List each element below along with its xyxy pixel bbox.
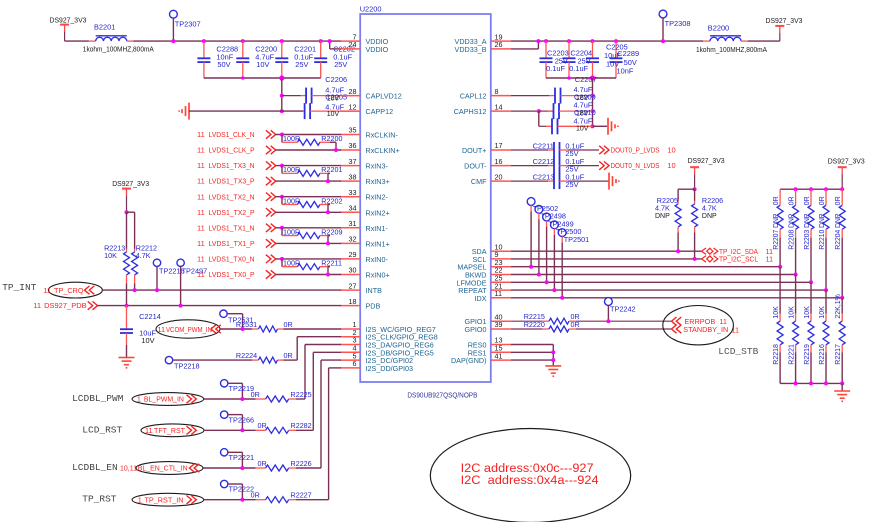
net label 11 LVDS1_TX1_P bbox=[197, 239, 255, 248]
junction bbox=[824, 187, 828, 191]
svg-text:0R: 0R bbox=[251, 491, 260, 500]
resistor R2210 0R DNP pullup bbox=[823, 189, 829, 290]
svg-text:0R: 0R bbox=[258, 459, 267, 468]
svg-text:R2218: R2218 bbox=[773, 344, 780, 365]
net label 11 LVDS1_TX0_N bbox=[197, 255, 255, 264]
svg-text:CAPHS12: CAPHS12 bbox=[454, 107, 487, 116]
svg-text:25V: 25V bbox=[295, 60, 308, 69]
svg-text:33: 33 bbox=[349, 188, 357, 197]
junction bbox=[794, 273, 798, 277]
power DS927_3V3 (I2C pullups) bbox=[690, 167, 699, 189]
junction bbox=[328, 39, 332, 43]
port oval TFT_RST bbox=[141, 424, 204, 437]
junction bbox=[125, 210, 129, 214]
resistor R2203 0R DNP pullup bbox=[808, 189, 814, 282]
svg-text:10V: 10V bbox=[576, 126, 589, 133]
pin 7 VDDIO bbox=[340, 32, 388, 46]
port chevron LVDS1_CLK_P bbox=[266, 146, 276, 154]
svg-text:DS90UB927QSQ/NOPB: DS90UB927QSQ/NOPB bbox=[407, 390, 477, 399]
svg-text:LVDS1_TX2_P: LVDS1_TX2_P bbox=[209, 208, 255, 217]
svg-text:DOUT+: DOUT+ bbox=[462, 146, 487, 155]
resistor R2215 0R bbox=[511, 318, 671, 324]
junction bbox=[824, 288, 828, 292]
test point TP2218 bbox=[165, 356, 172, 363]
svg-text:C2213: C2213 bbox=[533, 173, 555, 182]
svg-text:100R: 100R bbox=[283, 258, 300, 267]
junction bbox=[171, 39, 175, 43]
pin 25 LFMODE bbox=[457, 274, 511, 288]
svg-text:TP2308: TP2308 bbox=[665, 19, 691, 28]
test point TP2219 bbox=[221, 380, 245, 401]
svg-text:RxCLKIN+: RxCLKIN+ bbox=[366, 146, 400, 155]
pin 33 RxIN2- bbox=[340, 188, 388, 202]
svg-text:10K: 10K bbox=[804, 306, 811, 319]
junction bbox=[809, 187, 813, 191]
pin 22 BKWD bbox=[465, 266, 511, 280]
wire bbox=[65, 40, 89, 42]
pin 11 IDX bbox=[475, 289, 511, 303]
net label 11 LVDS1_TX1_N bbox=[197, 223, 255, 232]
wire ground line bbox=[189, 110, 282, 112]
resistor R2208 0R DNP pullup bbox=[793, 189, 799, 274]
wire SDA net bbox=[511, 250, 702, 252]
wire SCL net bbox=[511, 258, 702, 260]
wire LFMODE net bbox=[511, 281, 811, 283]
svg-text:0R: 0R bbox=[773, 196, 780, 205]
pin 6 I2S_DD/GPI03 bbox=[340, 359, 413, 373]
resistor R2212 4.7K pullup bbox=[127, 212, 138, 292]
svg-text:0.1uF: 0.1uF bbox=[546, 64, 565, 73]
wire bbox=[134, 40, 342, 42]
resistor R2227 0R bbox=[256, 368, 341, 503]
svg-text:DS927_3V3: DS927_3V3 bbox=[50, 15, 87, 24]
svg-text:0R: 0R bbox=[804, 196, 811, 205]
svg-text:4.7K: 4.7K bbox=[702, 204, 717, 213]
svg-text:4.7uF: 4.7uF bbox=[574, 116, 593, 125]
pin 29 RxIN0- bbox=[340, 250, 388, 264]
wire REPEAT net bbox=[511, 289, 826, 291]
svg-text:LVDS1_TX3_P: LVDS1_TX3_P bbox=[209, 177, 255, 186]
net label 11 LVDS1_CLK_N bbox=[197, 130, 255, 139]
capacitor C2213 (CMF) bbox=[511, 173, 609, 189]
svg-text:10K: 10K bbox=[789, 306, 796, 319]
svg-text:R2200: R2200 bbox=[321, 134, 342, 143]
svg-text:11: 11 bbox=[43, 286, 51, 295]
svg-text:100R: 100R bbox=[283, 134, 300, 143]
svg-text:B2200: B2200 bbox=[708, 24, 729, 33]
svg-text:BL_PWM_IN: BL_PWM_IN bbox=[144, 395, 184, 404]
junction bbox=[591, 124, 595, 128]
resistor R2221 pulldown bbox=[793, 275, 799, 384]
capacitor C2202 bbox=[314, 39, 327, 78]
junction bbox=[824, 381, 828, 385]
svg-text:0R: 0R bbox=[819, 196, 826, 205]
svg-text:PDB: PDB bbox=[366, 302, 381, 311]
wire bbox=[276, 180, 341, 182]
svg-text:STANDBY_IN: STANDBY_IN bbox=[683, 325, 728, 334]
port chevron LVDS1_TX2_P bbox=[266, 208, 276, 216]
pin 32 RxIN1+ bbox=[340, 235, 389, 249]
junction bbox=[840, 381, 844, 385]
test point TP2502 bbox=[527, 198, 535, 269]
svg-text:R2227: R2227 bbox=[291, 491, 312, 500]
net label 11 LVDS1_TX3_P bbox=[197, 177, 255, 186]
svg-text:LVDS1_TX2_N: LVDS1_TX2_N bbox=[209, 192, 255, 201]
pin 18 PDB bbox=[340, 297, 380, 311]
resistor R2282 0R bbox=[256, 352, 341, 433]
svg-text:10V: 10V bbox=[327, 95, 340, 102]
svg-text:25V: 25V bbox=[334, 60, 347, 69]
svg-text:1kohm_100MHZ,800mA: 1kohm_100MHZ,800mA bbox=[696, 47, 767, 54]
svg-text:LVDS1_TX0_N: LVDS1_TX0_N bbox=[209, 255, 255, 264]
capacitor C2289 bbox=[610, 39, 623, 78]
test point TP2266 bbox=[221, 411, 245, 432]
svg-text:R2201: R2201 bbox=[321, 165, 342, 174]
pin 40 GPIO1 bbox=[465, 312, 511, 326]
port chevron LVDS1_TX1_P bbox=[266, 239, 276, 247]
svg-text:32: 32 bbox=[349, 235, 357, 244]
svg-text:20: 20 bbox=[495, 172, 503, 181]
inductor B2201 bbox=[89, 36, 134, 41]
svg-text:11: 11 bbox=[158, 325, 166, 334]
svg-text:RxIN1-: RxIN1- bbox=[366, 224, 389, 233]
op-amp U2200 DS90UB927QSQ/NOPB serializer IC body bbox=[360, 14, 491, 382]
resistor R2213 10K pullup bbox=[124, 212, 130, 307]
svg-text:0R: 0R bbox=[789, 196, 796, 205]
port chevron DOUT0_P_LVDS bbox=[599, 146, 609, 154]
ground (CMF) bbox=[609, 173, 619, 190]
junction bbox=[280, 94, 284, 98]
wire pullup rail bbox=[780, 188, 842, 190]
pin 20 CMF bbox=[471, 172, 511, 186]
svg-text:11: 11 bbox=[197, 161, 205, 170]
svg-text:U2200: U2200 bbox=[360, 5, 382, 14]
svg-text:29: 29 bbox=[349, 250, 357, 259]
capacitor C2209 (CAPHS12) bbox=[511, 103, 593, 119]
wire PDB net bbox=[97, 305, 341, 307]
junction bbox=[536, 39, 540, 43]
svg-text:C2214: C2214 bbox=[139, 312, 161, 321]
svg-text:26: 26 bbox=[495, 40, 503, 49]
junction bbox=[794, 381, 798, 385]
port symbol TP_I2C_SCL bbox=[702, 255, 774, 264]
svg-text:R2226: R2226 bbox=[291, 459, 312, 468]
pin 1 I2S_WC/GPIO_REG7 bbox=[340, 320, 436, 334]
wire bbox=[276, 242, 341, 244]
capacitor C2205 (lower) bbox=[303, 103, 360, 119]
svg-text:INTB: INTB bbox=[366, 286, 383, 295]
svg-text:TP_I2C_SCL: TP_I2C_SCL bbox=[719, 255, 758, 264]
resistor R2219 pulldown bbox=[808, 282, 814, 383]
ground (C2214) bbox=[119, 358, 135, 368]
svg-text:R2217: R2217 bbox=[835, 344, 842, 365]
svg-text:R2221: R2221 bbox=[789, 344, 796, 365]
svg-text:CAPP12: CAPP12 bbox=[366, 107, 394, 116]
wire INTB net bbox=[102, 289, 341, 291]
svg-text:LVDS1_TX3_N: LVDS1_TX3_N bbox=[209, 161, 255, 170]
capacitor C2206 bbox=[282, 88, 360, 104]
svg-text:50V: 50V bbox=[217, 60, 230, 69]
svg-text:11: 11 bbox=[197, 177, 205, 186]
svg-text:18: 18 bbox=[349, 297, 357, 306]
svg-text:4.7K: 4.7K bbox=[655, 204, 670, 213]
power DS927_3V3 (top left) bbox=[60, 25, 69, 41]
svg-text:R2211: R2211 bbox=[321, 258, 342, 267]
svg-text:RxCLKIN-: RxCLKIN- bbox=[366, 131, 399, 140]
svg-text:37: 37 bbox=[349, 157, 357, 166]
wire cap bottom rail bbox=[204, 77, 321, 79]
svg-text:DS927_3V3: DS927_3V3 bbox=[766, 16, 803, 25]
svg-text:36: 36 bbox=[349, 141, 357, 150]
svg-text:10: 10 bbox=[667, 161, 675, 170]
capacitor C2211 bbox=[511, 142, 599, 158]
test point TP2221 bbox=[221, 449, 245, 470]
wire bbox=[276, 134, 341, 136]
wire bbox=[593, 125, 608, 127]
pin 30 RxIN0+ bbox=[340, 266, 389, 280]
svg-text:27: 27 bbox=[349, 281, 357, 290]
wire bbox=[276, 227, 341, 229]
svg-text:BL_EN_CTL_IN: BL_EN_CTL_IN bbox=[138, 464, 188, 473]
wire bbox=[276, 165, 341, 167]
svg-text:C2211: C2211 bbox=[533, 142, 554, 151]
svg-text:100R: 100R bbox=[283, 227, 300, 236]
pin 3 I2S_DA/GPIO_REG6 bbox=[340, 336, 434, 350]
svg-text:0R: 0R bbox=[251, 390, 260, 399]
svg-text:TP2266: TP2266 bbox=[229, 415, 255, 424]
svg-text:R2202: R2202 bbox=[321, 196, 342, 205]
svg-text:CAPL12: CAPL12 bbox=[460, 92, 487, 101]
svg-text:TP2497: TP2497 bbox=[182, 267, 208, 276]
pin 38 RxIN3+ bbox=[340, 172, 389, 186]
pin 12 CAPP12 bbox=[340, 102, 393, 116]
resistor R2220 0R bbox=[511, 326, 671, 332]
junction bbox=[591, 109, 595, 113]
svg-text:RxIN3+: RxIN3+ bbox=[366, 177, 390, 186]
svg-text:11: 11 bbox=[145, 426, 153, 435]
svg-text:11: 11 bbox=[197, 208, 205, 217]
wire bbox=[276, 196, 341, 198]
wire bbox=[204, 398, 256, 400]
test point TP2498 bbox=[535, 205, 543, 276]
pin 41 DAP(GND) bbox=[451, 351, 511, 365]
capacitor C2204 bbox=[563, 39, 576, 78]
svg-text:1: 1 bbox=[138, 495, 142, 504]
resistor R2217 pulldown bbox=[839, 298, 845, 384]
svg-text:6: 6 bbox=[353, 359, 357, 368]
svg-text:0R: 0R bbox=[571, 320, 580, 329]
svg-text:R2207 DNP: R2207 DNP bbox=[773, 213, 780, 249]
pin 13 RES0 bbox=[468, 336, 511, 350]
svg-text:11: 11 bbox=[766, 255, 774, 264]
pin 28 CAPLVD12 bbox=[340, 87, 402, 101]
port oval TP_RST_IN bbox=[132, 493, 204, 506]
junction bbox=[840, 296, 844, 300]
svg-text:TFT_RST: TFT_RST bbox=[154, 426, 186, 435]
wire bbox=[841, 383, 843, 391]
svg-text:DS927_3V3: DS927_3V3 bbox=[688, 156, 725, 165]
svg-text:DNP: DNP bbox=[655, 213, 670, 220]
resistor R2209 100R termination bbox=[280, 226, 330, 246]
pin 24 VDDIO bbox=[340, 40, 388, 54]
svg-text:16: 16 bbox=[495, 157, 503, 166]
svg-text:IDX: IDX bbox=[475, 294, 487, 303]
net label 11 LVDS1_TX0_P bbox=[197, 270, 255, 279]
junction bbox=[279, 75, 284, 80]
svg-text:C2207: C2207 bbox=[575, 75, 597, 84]
svg-text:4.7K: 4.7K bbox=[136, 251, 151, 260]
test point TP2497 bbox=[177, 259, 184, 308]
svg-text:DOUT-: DOUT- bbox=[464, 162, 487, 171]
svg-text:DS927_3V3: DS927_3V3 bbox=[828, 157, 865, 166]
pin 4 I2S_DB/GPIO_REG5 bbox=[340, 344, 434, 358]
svg-text:R2220: R2220 bbox=[524, 320, 545, 329]
wire bbox=[276, 211, 341, 213]
wire bbox=[281, 78, 283, 111]
svg-text:10K: 10K bbox=[773, 306, 780, 319]
svg-text:22K,1%: 22K,1% bbox=[835, 294, 842, 319]
svg-text:0R: 0R bbox=[835, 196, 842, 205]
junction bbox=[693, 187, 697, 191]
svg-text:C2212: C2212 bbox=[533, 157, 555, 166]
svg-text:14: 14 bbox=[495, 102, 503, 111]
svg-text:C2206: C2206 bbox=[325, 75, 347, 84]
svg-text:11: 11 bbox=[197, 146, 205, 155]
resistor R2205 4.7K DNP bbox=[675, 189, 695, 253]
svg-text:I2S_DD/GPI03: I2S_DD/GPI03 bbox=[366, 364, 414, 373]
pin 34 RxIN2+ bbox=[340, 204, 389, 218]
pin 9 SCL bbox=[473, 250, 511, 264]
svg-text:TP_RST: TP_RST bbox=[82, 494, 117, 505]
capacitor C2212 bbox=[511, 158, 599, 174]
svg-text:11: 11 bbox=[197, 223, 205, 232]
svg-text:R2224: R2224 bbox=[236, 351, 257, 360]
svg-text:DOUT0_N_LVDS: DOUT0_N_LVDS bbox=[611, 161, 660, 170]
pin 35 RxCLKIN- bbox=[340, 126, 398, 140]
svg-text:TP_CRQ: TP_CRQ bbox=[54, 286, 84, 295]
wire bbox=[204, 429, 256, 431]
svg-text:DS927_PDB: DS927_PDB bbox=[44, 301, 87, 310]
resistor R2225 0R bbox=[256, 345, 341, 403]
svg-text:RxIN0+: RxIN0+ bbox=[366, 271, 390, 280]
svg-text:11: 11 bbox=[197, 239, 205, 248]
svg-text:R2531: R2531 bbox=[236, 320, 257, 329]
pin 31 RxIN1- bbox=[340, 219, 388, 233]
ground (DAP) bbox=[545, 366, 561, 376]
net label 11 LVDS1_CLK_P bbox=[197, 146, 255, 155]
svg-text:30: 30 bbox=[349, 266, 357, 275]
wire pin26 riser bbox=[511, 41, 539, 49]
svg-text:11: 11 bbox=[732, 325, 740, 334]
svg-text:VDDIO: VDDIO bbox=[366, 45, 389, 54]
svg-text:1kohm_100MHZ,800mA: 1kohm_100MHZ,800mA bbox=[83, 47, 154, 54]
svg-text:28: 28 bbox=[349, 87, 357, 96]
svg-text:R2225: R2225 bbox=[291, 390, 312, 399]
note oval I2C addresses bbox=[430, 429, 630, 522]
test point TP2500 bbox=[551, 221, 559, 292]
svg-text:TP_RST_IN: TP_RST_IN bbox=[145, 495, 184, 504]
svg-text:LVDS1_TX1_P: LVDS1_TX1_P bbox=[209, 239, 255, 248]
svg-text:10: 10 bbox=[667, 146, 675, 155]
wire bbox=[276, 149, 341, 151]
svg-text:LCDBL_EN: LCDBL_EN bbox=[72, 462, 118, 473]
svg-text:TP2307: TP2307 bbox=[175, 20, 201, 29]
ground (caps right) bbox=[608, 118, 618, 135]
port chevron DOUT0_N_LVDS bbox=[599, 161, 609, 169]
svg-text:24: 24 bbox=[349, 40, 357, 49]
svg-text:39: 39 bbox=[495, 320, 503, 329]
svg-text:10V: 10V bbox=[141, 336, 154, 345]
test point TP2501 bbox=[558, 229, 566, 300]
power DS927_3V3 (R2213/R2212) bbox=[122, 189, 131, 213]
junction bbox=[840, 187, 844, 191]
svg-text:LVDS1_CLK_N: LVDS1_CLK_N bbox=[209, 130, 255, 139]
svg-text:10nF: 10nF bbox=[617, 67, 634, 76]
svg-text:R2203 DNP: R2203 DNP bbox=[804, 213, 811, 249]
svg-text:R2216: R2216 bbox=[819, 344, 826, 365]
svg-text:10K: 10K bbox=[104, 251, 117, 260]
svg-text:DNP: DNP bbox=[702, 213, 717, 220]
svg-text:25V: 25V bbox=[565, 180, 578, 189]
svg-text:LCD_STB: LCD_STB bbox=[718, 346, 758, 357]
wire pin24 riser bbox=[330, 41, 341, 49]
svg-text:35: 35 bbox=[349, 126, 357, 135]
port chevron DS927_PDB bbox=[88, 301, 98, 309]
svg-text:RxIN0-: RxIN0- bbox=[366, 255, 389, 264]
svg-text:11: 11 bbox=[197, 130, 205, 139]
junction bbox=[280, 109, 284, 113]
resistor R2226 0R bbox=[256, 360, 341, 471]
net label 11 LVDS1_TX2_P bbox=[197, 208, 255, 217]
svg-text:100R: 100R bbox=[283, 196, 300, 205]
port chevron LVDS1_TX2_N bbox=[266, 193, 276, 201]
svg-text:LCDBL_PWM: LCDBL_PWM bbox=[72, 393, 124, 404]
svg-text:TP2501: TP2501 bbox=[564, 235, 590, 244]
pin 39 GPIO0 bbox=[465, 320, 511, 334]
pin 36 RxCLKIN+ bbox=[340, 141, 399, 155]
svg-text:11: 11 bbox=[33, 301, 41, 310]
resistor R2531 0R bbox=[252, 326, 341, 332]
svg-text:GPIO0: GPIO0 bbox=[465, 325, 487, 334]
svg-text:TP2242: TP2242 bbox=[610, 305, 636, 314]
svg-text:CAPLVD12: CAPLVD12 bbox=[366, 92, 402, 101]
port chevron LVDS1_CLK_N bbox=[266, 130, 276, 138]
capacitor C2200 bbox=[236, 39, 249, 78]
pin 15 RES1 bbox=[468, 344, 511, 358]
pin 19 VDD33_A bbox=[455, 32, 511, 46]
svg-text:TP2218: TP2218 bbox=[174, 362, 200, 371]
svg-text:RxIN1+: RxIN1+ bbox=[366, 239, 390, 248]
resistor R2204 0R DNP pullup bbox=[839, 189, 845, 298]
wire IDX net bbox=[511, 297, 842, 299]
pin 23 MAPSEL bbox=[457, 258, 510, 272]
wire cap bottom rail bbox=[546, 77, 616, 79]
svg-text:TP_INT: TP_INT bbox=[2, 282, 37, 293]
svg-text:RxIN2+: RxIN2+ bbox=[366, 208, 390, 217]
ground (strap pulldowns) bbox=[834, 391, 850, 401]
svg-text:VCOM_PWM_IN: VCOM_PWM_IN bbox=[166, 325, 212, 334]
power DS927_3V3 (strap pullups) bbox=[838, 167, 847, 189]
resistor R2224 0R bbox=[173, 337, 341, 363]
capacitor C2205 bbox=[586, 39, 599, 78]
ground (left, CAPP12) bbox=[179, 103, 189, 120]
pin 26 VDD33_B bbox=[455, 40, 511, 54]
svg-text:TP2221: TP2221 bbox=[229, 453, 255, 462]
capacitor C2203 bbox=[540, 39, 553, 78]
svg-text:12: 12 bbox=[349, 102, 357, 111]
net label 11 LVDS1_TX2_N bbox=[197, 192, 255, 201]
capacitor C2210 (third) bbox=[539, 111, 593, 134]
